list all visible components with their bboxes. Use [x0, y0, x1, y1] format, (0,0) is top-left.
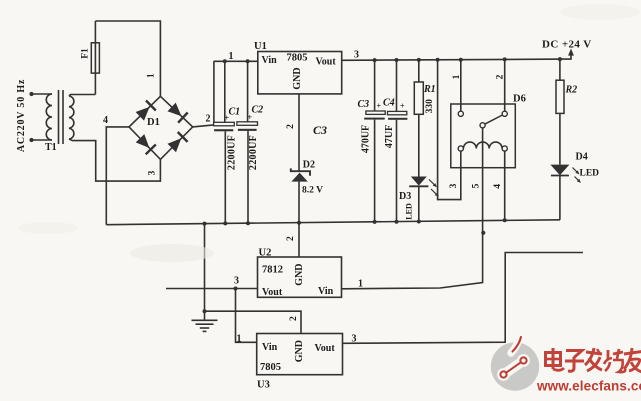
svg-text:2: 2	[206, 114, 211, 125]
svg-text:D3: D3	[399, 191, 411, 202]
svg-text:3: 3	[354, 50, 359, 61]
led D3 arrows	[429, 180, 437, 187]
regulator U3 box	[257, 334, 343, 375]
transformer T1 core	[58, 90, 60, 144]
svg-text:D2: D2	[303, 160, 315, 171]
wire through fuse F1	[94, 21, 96, 95]
svg-text:2200UF: 2200UF	[248, 135, 259, 170]
relay common contact	[480, 123, 485, 128]
wire bridge node 4 to ground bus	[106, 127, 129, 225]
node stray junction below bus	[481, 231, 485, 235]
relay coil	[458, 146, 463, 151]
svg-text:330: 330	[425, 99, 435, 114]
resistor R2	[559, 59, 561, 80]
svg-text:DC +24 V: DC +24 V	[542, 39, 592, 51]
node D2 bottom	[297, 221, 301, 225]
svg-text:1: 1	[452, 74, 462, 79]
node relay hook top	[436, 58, 440, 62]
node C4 bottom	[395, 220, 399, 224]
wire bottom ground bus	[106, 220, 560, 225]
wire bus A	[214, 60, 258, 62]
svg-text:Vout: Vout	[315, 343, 336, 354]
svg-text:GND: GND	[294, 340, 305, 362]
diode D1d (bottom-right arm)	[168, 138, 182, 152]
wire U3 Vout	[343, 253, 584, 344]
svg-text:GND: GND	[294, 263, 305, 285]
svg-text:2: 2	[496, 74, 506, 79]
watermark text dianzifashaoyou	[546, 348, 641, 372]
wire U1 pin 2 down	[298, 94, 300, 171]
ground symbol	[204, 311, 206, 320]
wire top loop to bridge	[95, 21, 160, 96]
node C3 top	[373, 58, 377, 62]
svg-text:Vin: Vin	[262, 342, 278, 353]
wire relay pin 5 to U2 Vin	[342, 128, 483, 289]
resistor R1	[418, 60, 420, 82]
led D4 arrows	[573, 168, 580, 175]
svg-text:U3: U3	[257, 380, 270, 391]
wire AC top lead	[32, 93, 53, 95]
diode D1b (top-right arm)	[168, 103, 182, 117]
relay contact terminal right	[502, 111, 507, 116]
node R2 top	[558, 57, 562, 61]
node junction C2 top	[246, 59, 250, 63]
svg-text:2: 2	[286, 124, 296, 129]
svg-text:T1: T1	[45, 142, 57, 153]
wire secondary bottom to bridge node 3	[69, 139, 160, 181]
svg-text:3: 3	[148, 170, 158, 175]
node C4 top	[395, 58, 399, 62]
node C1 bottom	[223, 221, 227, 225]
relay switch arm	[485, 115, 503, 124]
arrow DC +24V marker	[568, 49, 574, 56]
node relay pin2 top	[503, 57, 507, 61]
node C2 bottom	[246, 221, 250, 225]
fuse F1	[91, 43, 99, 73]
svg-text:F1: F1	[81, 48, 91, 59]
capacitor C4	[396, 60, 398, 111]
svg-text:1: 1	[229, 51, 234, 62]
svg-text:3: 3	[449, 183, 459, 188]
svg-text:4: 4	[493, 184, 503, 189]
node ground junction	[203, 309, 207, 313]
led D3	[411, 177, 427, 186]
bridge rectifier D1 outline	[129, 96, 193, 159]
node R1 top	[417, 58, 421, 62]
wire bridge node 2 to capacitor plates	[193, 125, 214, 127]
svg-text:R1: R1	[423, 84, 436, 95]
svg-text:R2: R2	[565, 85, 578, 96]
capacitor C2	[247, 61, 249, 122]
svg-text:U2: U2	[259, 248, 272, 259]
wire relay pin 4	[504, 151, 506, 220]
svg-text:C3: C3	[313, 123, 327, 137]
node relay pin1 top	[459, 58, 463, 62]
relay contact terminal left	[458, 111, 463, 116]
svg-text:2: 2	[289, 316, 299, 321]
wire U2 Vout stub	[166, 288, 258, 290]
svg-text:3: 3	[352, 334, 357, 345]
transformer T1 secondary winding	[69, 96, 74, 139]
capacitor C1	[224, 61, 226, 123]
diode D1c (left-bottom arm)	[136, 134, 150, 148]
svg-text:Vout: Vout	[262, 287, 283, 298]
wire bus A left drop	[213, 61, 215, 123]
watermark logo elecfans	[491, 342, 539, 390]
regulator U2 box	[258, 257, 342, 297]
svg-text:8.2 V: 8.2 V	[302, 186, 323, 196]
svg-text:C1: C1	[229, 107, 241, 118]
svg-text:7805: 7805	[260, 362, 281, 373]
svg-text:LED: LED	[405, 203, 414, 220]
svg-text:2: 2	[286, 236, 296, 241]
wire U2 pin 2	[298, 223, 300, 257]
svg-text:C2: C2	[252, 105, 264, 116]
wire relay pin 1	[460, 60, 462, 111]
wire U1 output bus	[342, 55, 571, 60]
relay D6 box	[451, 104, 516, 168]
svg-text:+: +	[248, 113, 253, 122]
scan smudge	[130, 244, 214, 262]
svg-text:C3: C3	[358, 99, 370, 110]
svg-text:470UF: 470UF	[360, 125, 371, 153]
wire secondary top to fuse	[69, 95, 95, 97]
node D3 bottom	[417, 220, 421, 224]
node relay pin4 bottom	[503, 218, 507, 222]
svg-text:AC220V 50 Hz: AC220V 50 Hz	[16, 79, 27, 152]
svg-text:7812: 7812	[262, 265, 283, 276]
svg-text:3: 3	[234, 276, 239, 287]
svg-text:+: +	[400, 102, 405, 111]
wire junction to U3 Vin	[236, 289, 257, 343]
svg-text:U1: U1	[254, 41, 267, 52]
wire relay pin 2	[504, 59, 506, 111]
svg-text:2200UF: 2200UF	[227, 135, 238, 170]
diode D1a (left-top arm)	[136, 107, 150, 121]
wire ground junction to U3 pin 2	[205, 311, 302, 333]
svg-text:D4: D4	[576, 152, 588, 163]
node C3 bottom	[373, 220, 377, 224]
svg-text:D1: D1	[147, 117, 160, 128]
transformer T1 primary winding	[46, 94, 52, 140]
capacitor C3	[374, 60, 376, 111]
node junction C1 top	[223, 59, 227, 63]
svg-text:5: 5	[471, 183, 481, 188]
svg-text:7805: 7805	[287, 53, 308, 64]
node gnd branch	[203, 222, 207, 226]
node U2 Vout junction	[234, 287, 238, 291]
svg-text:Vin: Vin	[318, 286, 334, 297]
svg-text:C4: C4	[383, 98, 395, 109]
svg-text:Vout: Vout	[316, 57, 337, 68]
node AC terminal bottom	[29, 138, 33, 142]
svg-text:1: 1	[147, 73, 157, 78]
svg-text:www.elecfans.com: www.elecfans.com	[536, 379, 641, 394]
svg-text:+: +	[377, 102, 382, 111]
svg-text:Vin: Vin	[262, 55, 278, 66]
wire top bus to relay pin 3	[438, 60, 461, 200]
svg-text:1: 1	[358, 279, 363, 290]
svg-text:+: +	[225, 114, 230, 123]
svg-text:D6: D6	[513, 94, 526, 105]
svg-text:1: 1	[237, 334, 242, 345]
svg-text:4: 4	[103, 115, 108, 126]
svg-text:LED: LED	[580, 169, 600, 179]
node AC terminal top	[29, 92, 33, 96]
wire AC bottom lead	[32, 139, 53, 141]
svg-text:GND: GND	[292, 67, 303, 89]
zener diode D2	[291, 173, 307, 182]
wire bus to ground	[204, 224, 206, 312]
regulator U1 box	[258, 52, 342, 94]
led D4	[550, 165, 569, 176]
svg-text:47UF: 47UF	[384, 125, 395, 148]
wire D2 to bus	[298, 182, 300, 223]
